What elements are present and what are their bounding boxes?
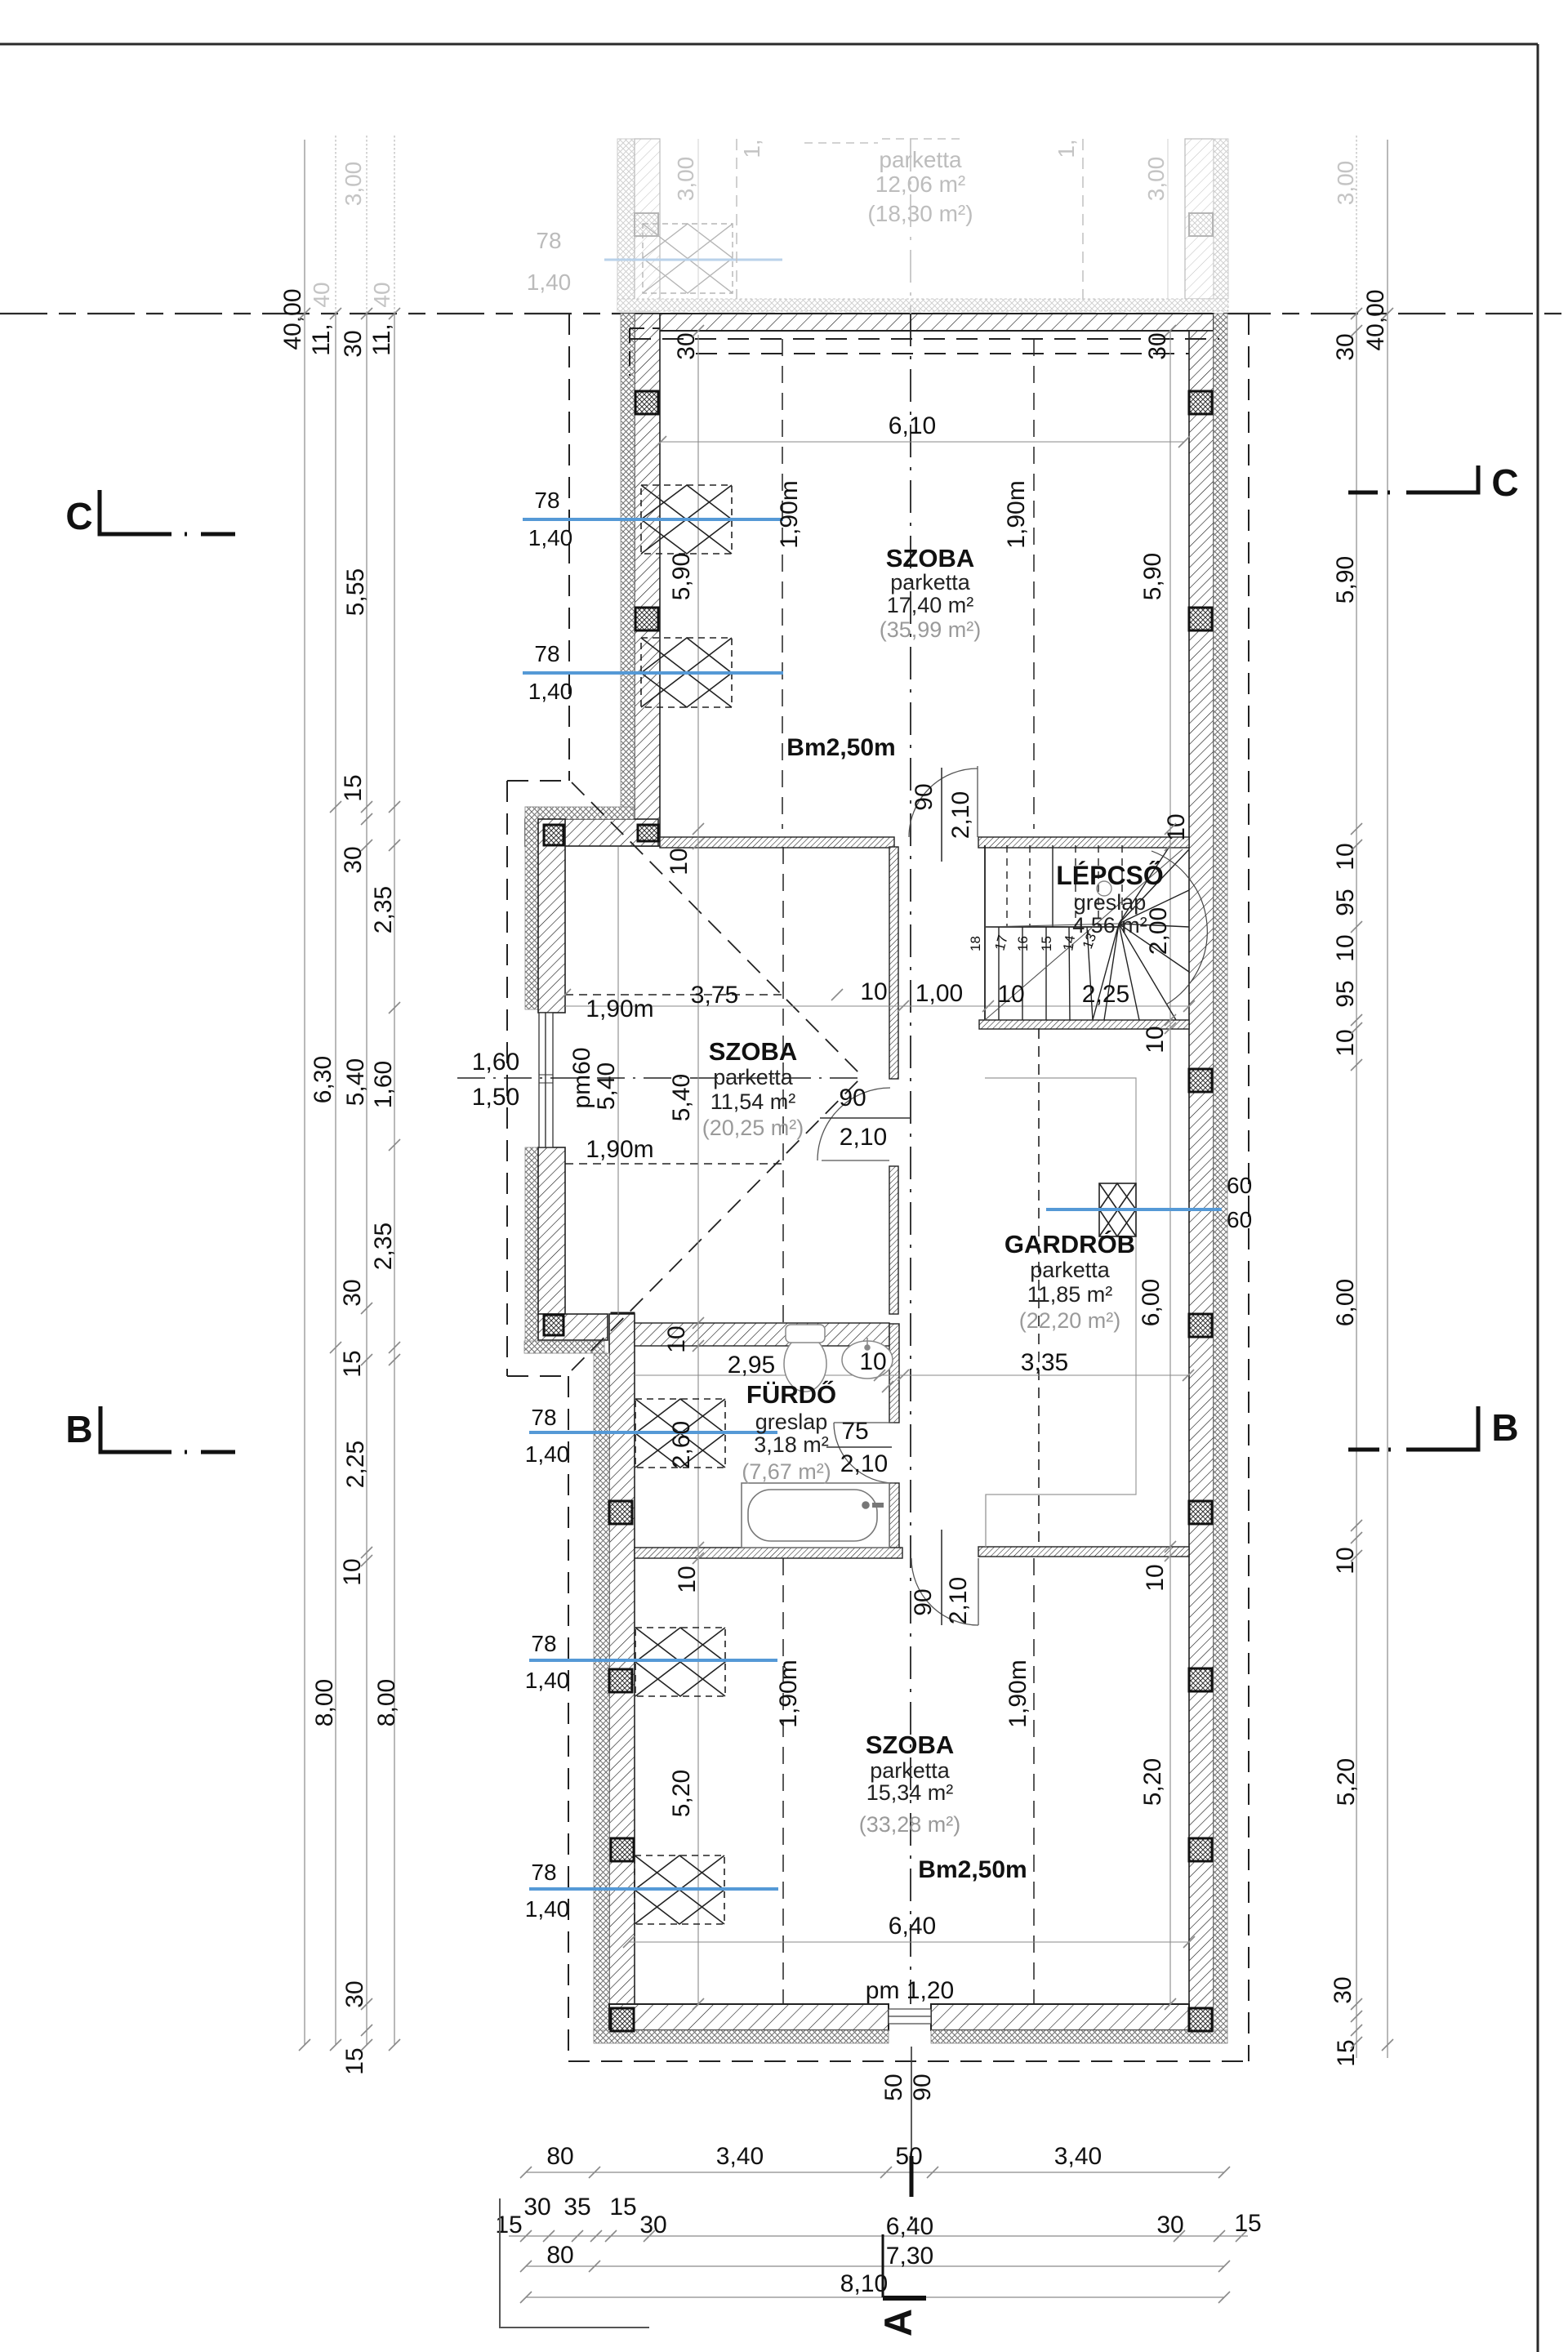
window axis labels 1,90m bottom room	[775, 1659, 1031, 1727]
window label 78 1,40 (5)	[525, 1860, 570, 1922]
pylon blocks lower-left wall	[609, 1501, 634, 2031]
svg-text:1,90m: 1,90m	[1004, 1659, 1031, 1727]
svg-text:40: 40	[369, 282, 394, 307]
middle room axis dashed vertical	[782, 847, 784, 1323]
tread numbers	[968, 931, 1099, 952]
svg-text:90: 90	[910, 1588, 937, 1615]
dimension chain verticals right	[1356, 136, 1388, 2058]
svg-text:3,75: 3,75	[691, 982, 738, 1009]
left chain dimension texts	[279, 288, 400, 2074]
pylon corner block bay top	[544, 825, 658, 845]
section marker C left	[65, 490, 235, 537]
svg-text:40: 40	[309, 282, 334, 307]
svg-text:90: 90	[909, 2074, 936, 2100]
interior wall between middle room and bathroom	[635, 1323, 889, 1346]
window axis blue line 2	[523, 671, 783, 675]
svg-text:5,90: 5,90	[1139, 553, 1166, 600]
middle room 1,90m contour dashed lines	[565, 995, 783, 1164]
window label 78 1,40 (1)	[528, 488, 573, 550]
window axis blue line 5	[529, 1887, 778, 1891]
svg-text:60: 60	[1227, 1207, 1252, 1232]
bottom block left bracket	[500, 2198, 649, 2327]
svg-text:Bm2,50m: Bm2,50m	[918, 1856, 1027, 1883]
svg-text:(18,30 m²): (18,30 m²)	[867, 201, 973, 226]
svg-text:30: 30	[340, 330, 367, 357]
door top label 90/2,10	[911, 768, 974, 862]
svg-text:78: 78	[531, 1631, 556, 1656]
exterior wall right insulation	[1214, 314, 1227, 2030]
svg-text:10: 10	[666, 848, 693, 875]
faded upper storey overlay	[309, 139, 1358, 311]
window axis blue line 1	[523, 518, 783, 521]
svg-text:2,10: 2,10	[840, 1450, 888, 1477]
svg-text:3,40: 3,40	[716, 2143, 764, 2170]
svg-text:30: 30	[1156, 2212, 1183, 2238]
svg-text:1,00: 1,00	[915, 980, 963, 1007]
svg-text:2,60: 2,60	[668, 1421, 695, 1468]
svg-text:30: 30	[339, 1279, 366, 1306]
bay bottom wall insulation	[524, 1341, 604, 1353]
svg-text:pm 1,20: pm 1,20	[866, 1977, 954, 2004]
svg-text:10: 10	[1332, 934, 1359, 961]
svg-text:1,40: 1,40	[525, 1896, 570, 1922]
roof outline dashed projection	[507, 314, 1249, 2061]
section marker C right	[1348, 461, 1519, 504]
roof hip dashed diagonals middle room	[572, 782, 862, 1370]
exterior wall bottom structural with pm opening	[609, 2004, 1189, 2030]
svg-text:30: 30	[523, 2194, 550, 2221]
svg-text:parketta: parketta	[713, 1065, 794, 1089]
svg-text:C: C	[65, 495, 92, 537]
svg-text:30: 30	[341, 1980, 368, 2007]
svg-text:12,06 m²: 12,06 m²	[875, 171, 966, 197]
svg-text:78: 78	[534, 641, 559, 666]
svg-text:A: A	[876, 2309, 920, 2336]
right chain dimension texts	[1330, 289, 1389, 2066]
svg-text:15: 15	[340, 774, 367, 801]
svg-text:15,34 m²: 15,34 m²	[866, 1780, 954, 1805]
svg-text:30: 30	[1332, 333, 1359, 360]
svg-text:8,10: 8,10	[840, 2270, 888, 2297]
section marker B left	[65, 1406, 235, 1452]
svg-text:1,90m: 1,90m	[586, 1136, 653, 1163]
svg-text:1,40: 1,40	[527, 269, 572, 295]
svg-text:78: 78	[531, 1405, 556, 1430]
dimension tick marks right chain	[1351, 308, 1393, 2051]
exterior wall top	[632, 314, 1214, 331]
svg-text:15: 15	[1234, 2210, 1261, 2237]
roof window gardrob	[1099, 1183, 1136, 1236]
svg-text:10: 10	[1332, 1029, 1359, 1056]
svg-text:30: 30	[1144, 332, 1171, 359]
svg-text:8,00: 8,00	[373, 1679, 400, 1726]
svg-text:SZOBA: SZOBA	[886, 544, 975, 572]
interior dim line 6,40	[629, 1941, 1189, 1943]
svg-text:40,00: 40,00	[1362, 289, 1389, 350]
window axis blue line 3	[529, 1431, 777, 1434]
svg-text:2,10: 2,10	[840, 1124, 887, 1151]
pylon blocks right wall	[1189, 391, 1212, 2031]
svg-text:15: 15	[341, 2047, 368, 2074]
room label middle SZOBA	[702, 1037, 804, 1140]
svg-text:1,40: 1,40	[528, 679, 573, 704]
page border top line	[0, 43, 1538, 46]
interior tick marks	[559, 325, 1195, 2010]
interior wall stairs top	[978, 837, 1189, 848]
radius arc 2,00	[1151, 851, 1207, 1004]
svg-text:8,00: 8,00	[311, 1679, 338, 1726]
faded dashed wall lines	[737, 139, 1083, 299]
longitudinal section axis A	[910, 139, 911, 2004]
svg-text:2,25: 2,25	[342, 1441, 369, 1488]
svg-text:10: 10	[674, 1566, 701, 1592]
svg-text:95: 95	[1332, 889, 1359, 915]
bottom dimension block row1	[520, 2143, 1230, 2178]
svg-text:2,35: 2,35	[370, 1223, 397, 1270]
svg-text:1,90m: 1,90m	[1003, 480, 1030, 548]
contour labels 1,90m middle room	[586, 996, 653, 1163]
svg-text:78: 78	[534, 488, 559, 513]
exterior wall bottom insulation	[594, 2030, 1227, 2043]
door bottom label 90/2,10	[910, 1530, 972, 1625]
bottom dimension block row2	[495, 2194, 1261, 2242]
door middle room	[817, 1088, 890, 1160]
svg-text:5,40: 5,40	[342, 1058, 369, 1106]
svg-text:parketta: parketta	[890, 570, 971, 595]
svg-text:1,90m: 1,90m	[775, 1659, 802, 1727]
exterior wall upper-left structural	[635, 314, 660, 846]
room label GARDROB	[1004, 1229, 1135, 1333]
svg-text:4,56 m²: 4,56 m²	[1072, 913, 1147, 938]
svg-text:3,00: 3,00	[1333, 161, 1358, 206]
svg-text:40,00: 40,00	[279, 288, 306, 350]
svg-text:75: 75	[841, 1418, 868, 1445]
faded roof window	[643, 224, 733, 293]
bay window labels 1,60 1,50 pm60	[472, 1047, 620, 1111]
gardrob window blue line	[1046, 1208, 1222, 1211]
svg-text:5,55: 5,55	[342, 568, 369, 616]
svg-text:6,40: 6,40	[889, 1913, 936, 1940]
svg-text:10: 10	[860, 978, 887, 1005]
window label 78 1,40 (4)	[525, 1631, 570, 1693]
faded pylon block left	[635, 213, 658, 236]
pylon blocks left wall	[635, 391, 658, 630]
svg-text:LÉPCSŐ: LÉPCSŐ	[1056, 861, 1164, 890]
svg-text:11,54 m²: 11,54 m²	[710, 1089, 796, 1114]
svg-text:16: 16	[1015, 936, 1031, 951]
stair room label	[1056, 861, 1164, 938]
svg-text:5,40: 5,40	[668, 1074, 695, 1121]
roof window hall	[635, 1628, 725, 1696]
svg-text:(35,99 m²): (35,99 m²)	[880, 617, 982, 642]
svg-text:80: 80	[546, 2143, 573, 2170]
svg-text:2,10: 2,10	[947, 791, 974, 839]
upper flight treads	[1007, 845, 1122, 927]
bathtub	[742, 1483, 889, 1548]
dashed box top-left wall	[630, 328, 660, 376]
faded left wall	[635, 139, 660, 311]
door hall to bottom room	[911, 1558, 978, 1625]
bay bottom wall structural	[538, 1314, 608, 1340]
faded right wall	[1185, 139, 1214, 299]
svg-text:1,: 1,	[739, 139, 764, 158]
interior wall middle vertical lower	[889, 1166, 898, 1314]
interior dim line 2,95 / 3,35	[635, 1374, 1188, 1376]
bay top wall insulation	[525, 807, 634, 819]
svg-text:11,: 11,	[308, 323, 335, 355]
bottom dimension block row3	[520, 2242, 1230, 2272]
svg-text:35: 35	[563, 2194, 590, 2221]
svg-text:11,: 11,	[368, 323, 395, 355]
svg-text:6,00: 6,00	[1138, 1279, 1165, 1326]
faded left wall insulation	[617, 139, 635, 311]
svg-text:3,00: 3,00	[341, 162, 366, 207]
bathroom right wall lower	[889, 1483, 899, 1552]
faded window labels 78 1,40	[527, 228, 572, 295]
lower flight treads	[999, 927, 1093, 1020]
svg-text:10: 10	[339, 1558, 366, 1585]
svg-text:10: 10	[859, 1348, 886, 1375]
svg-text:30: 30	[1330, 1976, 1356, 2003]
roof window top room 1	[641, 485, 732, 554]
svg-text:5,90: 5,90	[668, 553, 695, 600]
dimension tick marks left chains	[299, 308, 400, 2051]
interior wall between top room and middle (left part)	[660, 837, 894, 848]
interior wall stairs bottom	[979, 1020, 1189, 1029]
svg-text:2,00: 2,00	[1145, 907, 1172, 955]
svg-text:7,30: 7,30	[886, 2243, 933, 2270]
svg-text:17,40 m²: 17,40 m²	[887, 593, 974, 617]
window label 78 1,40 (2)	[528, 641, 573, 704]
svg-text:parketta: parketta	[1030, 1258, 1111, 1282]
svg-text:B: B	[65, 1408, 92, 1450]
door bathroom	[834, 1423, 894, 1483]
vertical line below plan centre	[911, 2047, 912, 2167]
faded interior dim lines	[698, 139, 1168, 299]
flight direction diagonals	[985, 849, 1183, 1020]
closet outline grey	[985, 1078, 1136, 1547]
svg-text:3,18 m²: 3,18 m²	[754, 1432, 829, 1457]
toilet	[784, 1325, 826, 1392]
interior wall above bottom room	[635, 1547, 1189, 1558]
svg-text:30: 30	[639, 2212, 666, 2238]
svg-text:78: 78	[531, 1860, 556, 1885]
faded window axis blue line	[604, 259, 782, 261]
svg-text:SZOBA: SZOBA	[866, 1731, 955, 1759]
svg-text:1,90m: 1,90m	[776, 480, 803, 548]
svg-text:(33,28 m²): (33,28 m²)	[859, 1812, 961, 1837]
svg-text:2,35: 2,35	[370, 886, 397, 933]
interior 30 labels below top wall	[673, 332, 1171, 359]
bay top wall structural	[525, 819, 658, 846]
bay left wall insulation	[525, 807, 538, 1353]
bottom dimension block row4	[520, 2270, 1230, 2303]
svg-text:(20,25 m²): (20,25 m²)	[702, 1116, 804, 1140]
svg-text:50: 50	[895, 2143, 922, 2170]
window axis blue line 4	[529, 1659, 777, 1662]
svg-text:15: 15	[609, 2194, 636, 2221]
svg-text:parketta: parketta	[879, 147, 962, 172]
svg-text:30: 30	[673, 332, 700, 359]
svg-text:C: C	[1491, 461, 1518, 504]
svg-text:2,10: 2,10	[945, 1577, 972, 1624]
svg-text:1,40: 1,40	[525, 1441, 570, 1467]
bay left wall structural	[538, 819, 565, 1314]
svg-text:6,40: 6,40	[886, 2213, 933, 2240]
svg-text:5,20: 5,20	[1139, 1758, 1166, 1806]
roof window bathroom	[635, 1399, 725, 1468]
svg-text:90: 90	[911, 783, 938, 810]
roof window axis dashed lines bottom room	[783, 1558, 1034, 2004]
exterior wall lower-left structural	[609, 1314, 635, 2030]
window axis labels 1,90m top room	[776, 480, 1030, 548]
gardrob window labels 60 60	[1227, 1173, 1252, 1232]
pm opening threshold	[889, 2009, 931, 2024]
dimension chain verticals left	[305, 136, 394, 2045]
svg-text:10: 10	[997, 981, 1024, 1008]
stair well boundary	[985, 845, 1119, 1020]
svg-text:Bm2,50m: Bm2,50m	[786, 734, 895, 761]
interior dimension texts	[691, 412, 1068, 2004]
svg-text:FÜRDŐ: FÜRDŐ	[746, 1379, 836, 1409]
exterior wall upper-left insulation	[621, 314, 635, 819]
stairs	[968, 845, 1207, 1020]
svg-text:1,: 1,	[1053, 139, 1079, 158]
svg-text:3,40: 3,40	[1054, 2143, 1102, 2170]
stair dims	[997, 981, 1129, 1008]
svg-text:2,25: 2,25	[1082, 981, 1129, 1008]
interior dim line right vertical	[1169, 331, 1171, 2004]
svg-text:30: 30	[340, 846, 367, 873]
door bathroom label 75/2,10	[826, 1418, 892, 1477]
roof window axis dashed lines top room	[782, 339, 1034, 829]
svg-text:(7,67 m²): (7,67 m²)	[742, 1459, 831, 1484]
svg-text:5,20: 5,20	[1333, 1758, 1360, 1806]
svg-text:5,20: 5,20	[668, 1770, 695, 1817]
svg-text:1,90m: 1,90m	[586, 996, 653, 1022]
rotated interior dims	[663, 553, 1190, 1817]
svg-text:GARDRÓB: GARDRÓB	[1004, 1229, 1135, 1258]
svg-text:10: 10	[1142, 1026, 1169, 1053]
interior dim line 6,10	[661, 441, 1184, 443]
svg-text:60: 60	[1227, 1173, 1252, 1198]
svg-text:50: 50	[880, 2074, 907, 2100]
svg-text:greslap: greslap	[1074, 890, 1147, 915]
interior dim line left vertical	[697, 335, 699, 2004]
roof window top room 2	[641, 638, 732, 707]
bathroom right wall upper	[889, 1324, 899, 1423]
svg-text:pm60: pm60	[568, 1047, 595, 1108]
roof window bottom room	[635, 1855, 724, 1924]
svg-text:5,90: 5,90	[1332, 556, 1359, 604]
svg-text:78: 78	[536, 228, 561, 253]
bay bottom corner block	[544, 1313, 634, 1335]
labels 50 90 below plan	[880, 2074, 936, 2100]
svg-text:18: 18	[968, 936, 983, 951]
room label bottom SZOBA	[859, 1731, 961, 1837]
exterior wall right structural	[1189, 331, 1214, 2030]
interior wall middle vertical upper	[889, 847, 898, 1079]
svg-text:(22,20 m²): (22,20 m²)	[1019, 1308, 1121, 1333]
page border right line	[1537, 44, 1539, 2352]
svg-text:90: 90	[839, 1085, 866, 1111]
svg-text:1,50: 1,50	[472, 1084, 519, 1111]
svg-text:10: 10	[1142, 1564, 1169, 1591]
section axis A bottom marker	[876, 2156, 926, 2336]
room label top SZOBA	[880, 544, 982, 642]
faded room text parketta 12,06	[867, 147, 973, 226]
faded right wall insulation	[1214, 139, 1228, 299]
door middle label 90/2,10	[820, 1085, 910, 1151]
svg-text:6,00: 6,00	[1332, 1279, 1359, 1326]
svg-text:5,40: 5,40	[593, 1062, 620, 1110]
svg-text:15: 15	[1039, 936, 1054, 951]
faded rotated dims 3,00	[309, 139, 1358, 307]
hall centre dashed line	[1038, 1028, 1040, 1547]
svg-text:greslap: greslap	[755, 1410, 828, 1434]
svg-text:3,00: 3,00	[1143, 157, 1169, 202]
bay interior dim line	[617, 847, 619, 1314]
door top room to hall	[909, 766, 978, 837]
winder fan lines	[1093, 845, 1189, 1020]
svg-text:6,30: 6,30	[310, 1056, 336, 1103]
svg-text:1,40: 1,40	[525, 1668, 570, 1693]
room label FURDO	[742, 1379, 836, 1484]
exterior wall lower-left insulation	[594, 1353, 609, 2035]
svg-text:80: 80	[546, 2242, 573, 2269]
svg-text:10: 10	[1163, 813, 1190, 840]
svg-text:1,60: 1,60	[472, 1049, 519, 1076]
svg-text:10: 10	[1332, 1547, 1359, 1574]
faded pylon block right	[1189, 213, 1213, 236]
svg-text:3,00: 3,00	[673, 157, 698, 202]
svg-text:11,85 m²: 11,85 m²	[1027, 1282, 1113, 1307]
svg-text:10: 10	[663, 1325, 690, 1352]
washbasin	[842, 1338, 893, 1379]
svg-text:95: 95	[1332, 980, 1359, 1007]
section line through upper wall (dash-dot across page)	[0, 313, 1568, 314]
interior dim line stairs 2,25	[565, 1005, 1189, 1007]
faded bottom band of upper storey	[617, 299, 1228, 311]
turning point circle	[1097, 881, 1111, 896]
svg-text:1,60: 1,60	[370, 1061, 397, 1108]
svg-text:B: B	[1491, 1406, 1518, 1449]
bay window in left wall	[539, 1013, 553, 1147]
svg-text:parketta: parketta	[870, 1758, 951, 1783]
section marker B right	[1348, 1406, 1519, 1450]
svg-text:6,10: 6,10	[889, 412, 936, 439]
centre axis dash-dot middle room	[457, 1077, 860, 1079]
svg-text:1,40: 1,40	[528, 525, 573, 550]
svg-text:3,35: 3,35	[1021, 1349, 1068, 1376]
svg-text:SZOBA: SZOBA	[709, 1037, 798, 1066]
window label 78 1,40 (3)	[525, 1405, 570, 1467]
svg-text:2,95: 2,95	[728, 1352, 775, 1379]
